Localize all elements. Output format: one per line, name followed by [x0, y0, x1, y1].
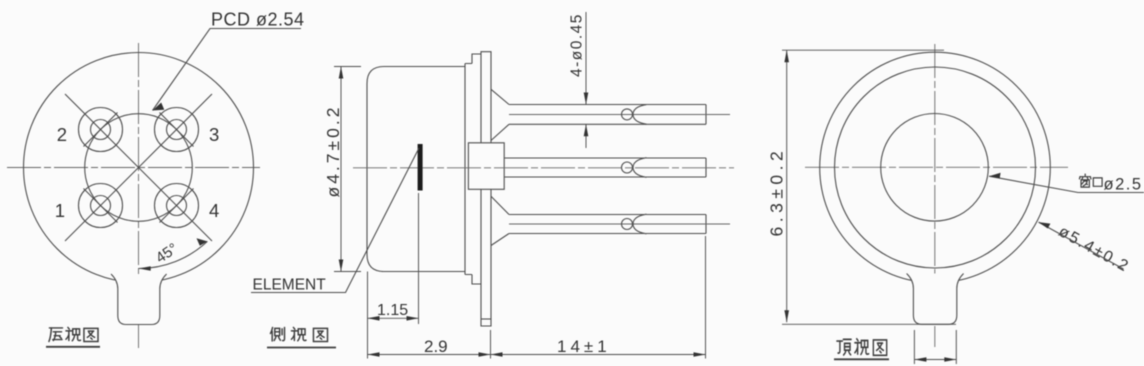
wire diagonal NW-SE — [65, 94, 212, 241]
arrowhead 2.9 right — [479, 352, 491, 357]
svg-text:1.15: 1.15 — [377, 302, 408, 319]
arrowhead 0.45 upper — [584, 93, 589, 105]
pin pad 3 — [155, 108, 199, 152]
node outer flange circle top view — [820, 52, 1051, 283]
leader PCD underline — [153, 29, 302, 111]
node window circle — [881, 114, 989, 222]
pin pad 4 — [155, 184, 199, 228]
brim ring B — [472, 54, 481, 284]
dimension dia 4.7 — [334, 67, 361, 272]
svg-text:1: 1 — [55, 200, 65, 221]
svg-text:3: 3 — [209, 124, 219, 145]
wire side view main centerline — [353, 167, 734, 169]
wire vertical centerline left view — [138, 43, 140, 348]
pin 1 centerline — [509, 114, 730, 116]
svg-text:ø2.5: ø2.5 — [1104, 176, 1143, 194]
label bottom-view caption — [46, 327, 100, 346]
wire horizontal centerline left view — [7, 167, 260, 169]
dimension 6.3 — [782, 50, 956, 324]
dimension 2.9 and 14 extension lines — [368, 236, 706, 359]
pin 2 middle — [504, 158, 706, 177]
arrowhead tab right — [944, 357, 956, 362]
glass seal pin 1 funnel — [491, 89, 509, 140]
arrowhead 6.3 bottom — [784, 310, 789, 322]
can body side view — [367, 67, 465, 272]
arrowhead PCD leader — [153, 103, 165, 111]
svg-text:4: 4 — [209, 200, 219, 221]
sensing element bar — [418, 144, 423, 191]
svg-text:14±1: 14±1 — [557, 337, 611, 356]
pin 3 centerline — [509, 223, 730, 225]
label top-view caption — [834, 339, 889, 360]
arrowhead 0.45 lower — [584, 124, 589, 136]
arrowhead dia4.7 bottom — [339, 260, 344, 272]
label side-view caption — [267, 327, 336, 347]
node tab top view — [907, 274, 964, 325]
arrowhead 45 arc diagonal end — [197, 238, 208, 246]
arrowhead 1.15 left — [368, 316, 380, 321]
arrowhead 1.15 right — [407, 316, 419, 321]
wire horizontal centerline top view — [805, 166, 1068, 168]
flange tab parting line — [481, 318, 491, 320]
glass seal pin 3 funnel — [491, 196, 509, 245]
dimension tab width — [914, 330, 956, 364]
flange plate with tab — [481, 52, 491, 326]
glass seal pin 2 tube — [468, 143, 504, 190]
arrowhead 6.3 top — [784, 50, 789, 62]
break symbol pin 3 — [622, 214, 647, 234]
break symbol pin 1 — [622, 105, 647, 125]
svg-text:2.9: 2.9 — [424, 337, 448, 356]
node can body circle top view — [835, 67, 1036, 268]
wire vertical centerline top view — [934, 44, 936, 347]
pin 3 bottom — [509, 215, 706, 234]
dimension 1.15 — [368, 193, 419, 324]
pin pad 2 — [79, 108, 123, 152]
arrowhead dia4.7 top — [339, 67, 344, 79]
dimension 45-degree arc — [139, 241, 208, 268]
svg-text:ELEMENT: ELEMENT — [253, 277, 327, 294]
arrowhead tab left — [914, 357, 926, 362]
arrowhead 45 arc left end — [139, 266, 151, 271]
svg-text:4-ø0.45: 4-ø0.45 — [569, 13, 586, 77]
leader ELEMENT — [251, 148, 419, 293]
wire diagonal NE-SW — [65, 94, 212, 241]
weld ring A — [465, 64, 472, 275]
arrowhead window leader — [989, 173, 1001, 179]
arrowhead dia5.4 leader — [1039, 222, 1051, 228]
label window 2.5 — [1079, 174, 1142, 193]
svg-text:ø4.7±0.2: ø4.7±0.2 — [323, 105, 343, 198]
dimension 4-dia0.45 — [585, 12, 587, 148]
break symbol pin 2 — [622, 158, 647, 178]
arrowhead 2.9 left — [368, 352, 380, 357]
leader dia 5.4 — [1039, 222, 1124, 269]
svg-text:2: 2 — [57, 124, 67, 145]
pin pad 1 — [79, 184, 123, 228]
svg-text:PCD ø2.54: PCD ø2.54 — [211, 10, 305, 30]
svg-text:45°: 45° — [153, 240, 181, 267]
node PCD circle — [85, 114, 193, 222]
node tab bottom view — [111, 274, 167, 325]
arrowhead 14 left — [491, 352, 503, 357]
node outer-case circle bottom view — [24, 53, 254, 283]
arrowhead 14 right — [694, 352, 706, 357]
leader window label — [989, 176, 1144, 192]
svg-text:6.3±0.2: 6.3±0.2 — [767, 147, 787, 237]
pin 1 top — [509, 105, 706, 125]
